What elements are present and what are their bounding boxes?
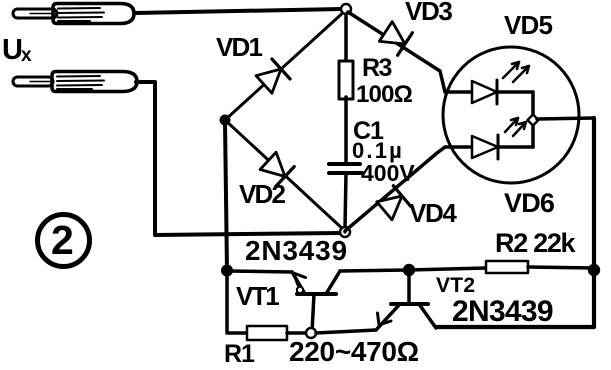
svg-text:VT1: VT1 [236, 281, 279, 311]
wire bridge left node down to VT1 emitter junction [225, 122, 227, 271]
label Ux [2, 34, 32, 66]
wire C1 to bridge bottom node [345, 173, 346, 228]
resistor R2 [409, 261, 594, 273]
svg-text:VD1: VD1 [216, 32, 263, 62]
svg-text:U: U [2, 34, 23, 66]
resistor R3 [339, 61, 353, 99]
wire base node to VT2 emitter [316, 330, 376, 333]
wire VD5 cathode to VD6 cathode [531, 92, 535, 147]
svg-text:VD5: VD5 [504, 10, 553, 40]
node LED output (small open diamond) [528, 115, 539, 126]
wire R3 to C1 [344, 97, 348, 162]
wire bottom plug down and right to bridge bottom node [136, 82, 340, 235]
svg-text:400V: 400V [361, 160, 415, 186]
svg-text:VD6: VD6 [504, 188, 555, 218]
wire LED output to right rail [537, 118, 594, 119]
probe plug bottom (Ux terminal 2) [13, 72, 137, 92]
wire VT1 collector to VT2 base junction [340, 270, 409, 271]
node VT1 emitter junction [221, 265, 233, 277]
diode VD2 [225, 120, 345, 231]
svg-text:VD3: VD3 [405, 0, 452, 26]
svg-text:R3: R3 [362, 54, 392, 82]
node VT1 base / R1 (open circle) [306, 328, 316, 338]
svg-text:2N3439: 2N3439 [452, 295, 553, 328]
node bridge bottom (open circle) [340, 227, 350, 237]
resistor R1 [247, 326, 287, 340]
wire VT2 collector to right rail [436, 325, 594, 329]
node bridge top (open circle) [341, 4, 351, 14]
probe plug top (Ux terminal 1) [13, 4, 134, 24]
svg-text:100Ω: 100Ω [356, 81, 413, 108]
LED VD6 [445, 118, 533, 159]
svg-text:R1: R1 [224, 340, 255, 365]
diode VD4 [345, 147, 445, 231]
figure number 2 (circled) [38, 215, 90, 267]
diode VD3 [348, 12, 445, 92]
svg-text:x: x [21, 45, 32, 66]
wire right rail [592, 118, 596, 327]
svg-text:VD4: VD4 [409, 198, 457, 228]
transistor VT2 (2N3439) [376, 270, 436, 330]
wire left down to R1 [227, 271, 247, 333]
svg-text:220~470Ω: 220~470Ω [289, 336, 419, 365]
wire top node to R3 [344, 14, 348, 62]
diode VD1 [225, 10, 346, 120]
svg-text:VD2: VD2 [239, 179, 286, 209]
wire VT1 emitter junction to VT1 [227, 271, 292, 272]
wire R1 to base node [287, 331, 306, 335]
svg-text:VT2: VT2 [436, 274, 475, 297]
capacitor C1 [329, 164, 362, 173]
svg-text:2: 2 [51, 217, 74, 263]
svg-text:R2 22k: R2 22k [495, 228, 577, 258]
LED indicator circle (VD5/VD6 housing) [443, 47, 579, 183]
svg-text:2N3439: 2N3439 [245, 235, 348, 266]
LED VD5 [445, 62, 533, 104]
node bridge left (AC input) [220, 115, 231, 126]
transistor VT1 (2N3439) [292, 271, 340, 332]
node VT2 base junction [403, 264, 415, 276]
node right rail / R2 junction [588, 264, 600, 276]
wire top plug to bridge top node [135, 9, 341, 13]
